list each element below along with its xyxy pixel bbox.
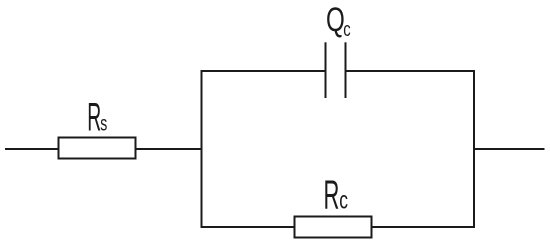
- svg-text:c: c: [343, 18, 351, 41]
- label Rs: [87, 95, 107, 139]
- resistor Rs: [59, 138, 136, 159]
- wire top branch right: [345, 70, 475, 72]
- label Rc: [324, 171, 349, 217]
- svg-text:R: R: [324, 171, 340, 217]
- svg-text:s: s: [100, 112, 107, 135]
- resistor Rc: [295, 217, 372, 238]
- label Qc: [326, 1, 351, 41]
- wire bottom branch left: [201, 226, 295, 228]
- node A left junction: [201, 70, 203, 228]
- node B right junction: [473, 70, 475, 228]
- svg-text:Q: Q: [326, 1, 345, 39]
- wire bottom branch right: [373, 226, 476, 228]
- wire right output: [473, 148, 545, 150]
- wire top branch left: [201, 70, 327, 72]
- wire left input: [5, 148, 58, 150]
- svg-text:c: c: [339, 185, 348, 214]
- capacitor Qc: [326, 42, 346, 98]
- wire Rs to node A: [137, 148, 203, 150]
- svg-text:R: R: [87, 95, 101, 139]
